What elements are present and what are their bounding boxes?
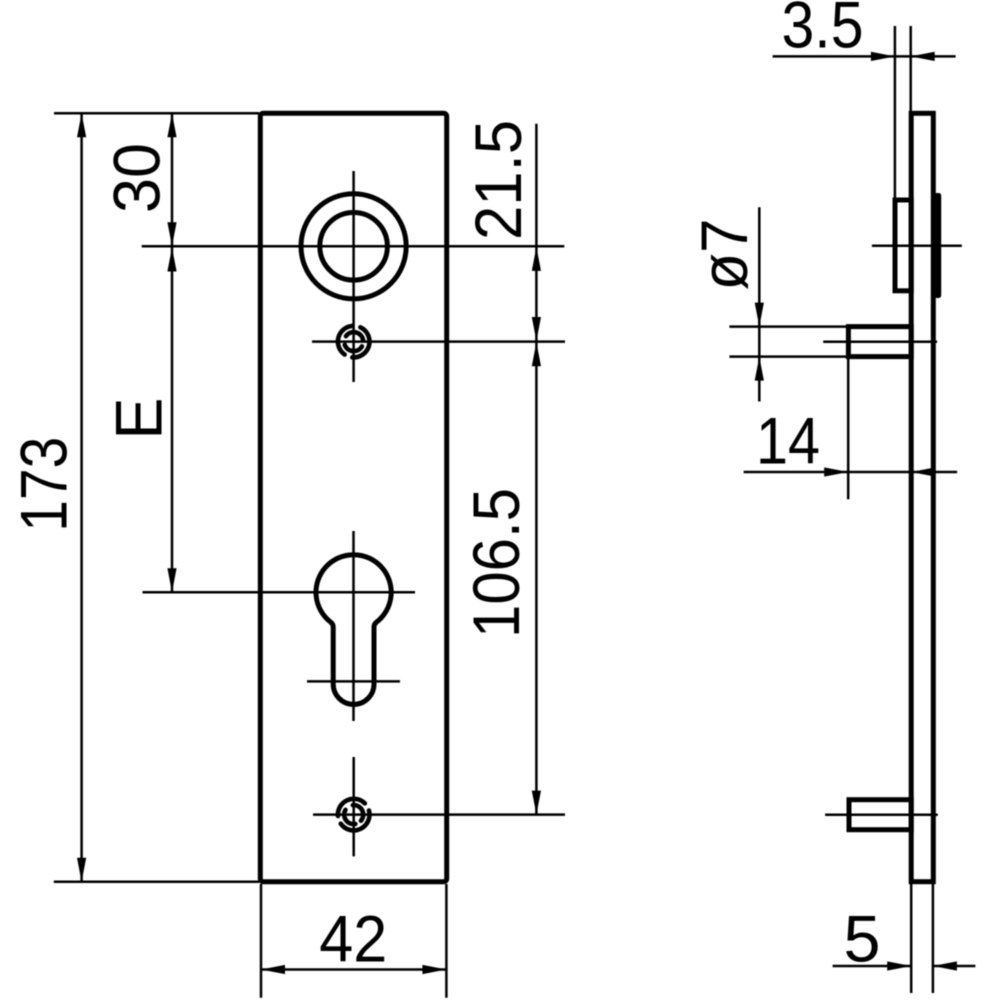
svg-text:E: E xyxy=(102,398,176,440)
handle hole outer circle xyxy=(301,194,406,299)
centre line vertical through handle hole and top screw xyxy=(352,171,355,382)
centre line vertical through euro hole xyxy=(352,531,355,721)
svg-text:106.5: 106.5 xyxy=(459,488,533,638)
extension line pin bottom xyxy=(729,355,846,358)
side centre line through top pin xyxy=(823,340,937,343)
dimension 5 line right part xyxy=(933,965,976,968)
centre line horizontal through top screw xyxy=(312,340,565,343)
svg-text:5: 5 xyxy=(844,902,881,976)
dimension 30 / E line xyxy=(171,113,174,592)
side view top fixing pin xyxy=(848,327,911,357)
dimension 5 line left part xyxy=(833,965,912,968)
side centre line through bushing xyxy=(872,245,962,248)
centre line horizontal through euro slot bottom arc xyxy=(307,680,400,683)
euro profile cylinder hole xyxy=(316,555,391,705)
side view plate outline xyxy=(911,113,933,881)
handle hole inner circle xyxy=(320,213,388,281)
extension line 3.5 right xyxy=(909,26,912,111)
top screw hole symbol xyxy=(338,326,370,358)
extension line 42 left xyxy=(260,884,263,998)
dimension diameter 7 line xyxy=(758,207,761,401)
extension line 5 right xyxy=(932,884,935,993)
svg-text:173: 173 xyxy=(6,437,80,532)
front view plate outline xyxy=(260,113,446,881)
side view bottom fixing pin xyxy=(849,800,911,830)
dimension 173 line xyxy=(80,113,83,881)
svg-text:3.5: 3.5 xyxy=(782,0,864,62)
side centre line through bottom pin xyxy=(825,813,938,816)
centre line vertical through bottom screw xyxy=(352,757,355,856)
extension line 3.5 left xyxy=(894,26,897,198)
extension line bottom edge xyxy=(54,880,259,883)
extension line 5 left xyxy=(910,884,913,993)
extension line pin top xyxy=(729,325,846,328)
extension line top edge xyxy=(54,112,259,115)
svg-text:42: 42 xyxy=(319,901,387,975)
side view handle bushing xyxy=(895,200,911,291)
svg-text:21.5: 21.5 xyxy=(461,120,535,240)
centre line horizontal through handle hole xyxy=(142,245,565,248)
centre line horizontal through euro hole xyxy=(143,591,416,594)
svg-text:14: 14 xyxy=(756,404,820,478)
bottom screw hole symbol xyxy=(331,792,375,836)
centre line horizontal through bottom screw xyxy=(313,813,565,816)
svg-text:ø7: ø7 xyxy=(687,219,761,291)
side view rear bar xyxy=(934,193,941,298)
dimension 21.5 / 106.5 line xyxy=(535,124,538,815)
extension line 14 xyxy=(847,357,850,499)
dimension 42 line xyxy=(261,968,446,971)
extension line 42 right xyxy=(445,884,448,998)
svg-text:30: 30 xyxy=(100,143,174,213)
dimension 14 line xyxy=(744,471,958,474)
dimension 3.5 line xyxy=(773,55,956,58)
